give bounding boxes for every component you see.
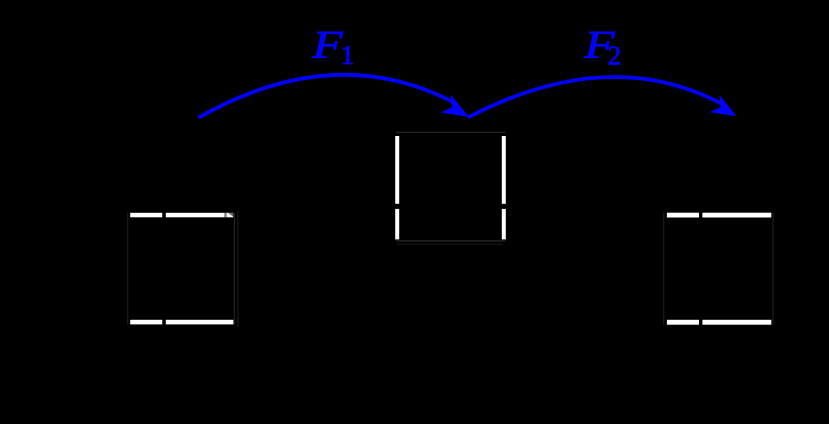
middle box left white segment 2: [395, 209, 399, 240]
middle box faint bottom edge: [396, 240, 506, 241]
right box faint left edge: [663, 213, 664, 325]
left box faint outer right edge: [237, 211, 238, 327]
right box top white segment 2: [702, 213, 771, 218]
arrow F1 head: [441, 95, 470, 117]
right box bottom white segment 1: [667, 320, 699, 325]
middle box left white segment 1: [395, 136, 399, 204]
right box faint right edge: [772, 213, 773, 325]
arrow F1 curve: [199, 75, 456, 118]
svg-text:2: 2: [608, 40, 622, 71]
middle box right white segment 2: [502, 209, 506, 240]
left box faint left edge: [127, 213, 128, 325]
left box top white segment 2: [166, 213, 234, 218]
left box top-right dark wedge: [228, 213, 234, 218]
right box bottom white segment 2: [702, 320, 771, 325]
label F2: [583, 24, 621, 71]
middle box faint top edge: [396, 132, 506, 133]
svg-text:F: F: [311, 24, 344, 67]
left box faint right edge: [234, 213, 235, 325]
middle box right white segment 1: [502, 136, 506, 204]
left box top white segment 1: [130, 213, 162, 218]
left box bottom white segment 1: [130, 320, 162, 325]
arrow F2 head: [710, 95, 737, 116]
left box top-right dark notch: [224, 213, 227, 218]
arrow F2 curve: [468, 77, 722, 118]
label F1: [311, 24, 354, 71]
left box bottom white segment 2: [166, 320, 234, 325]
right box top white segment 1: [667, 213, 699, 218]
svg-text:1: 1: [341, 39, 355, 70]
middle box faint outer bottom edge: [397, 244, 503, 245]
